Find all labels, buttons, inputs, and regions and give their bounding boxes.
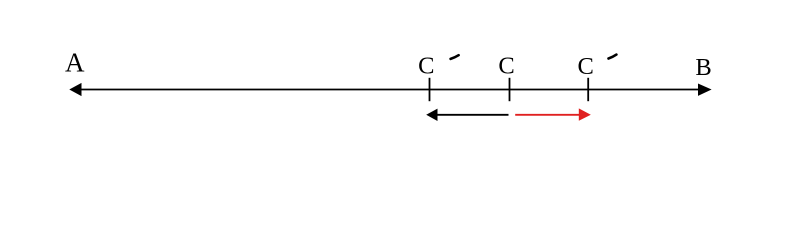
line AB [80, 89, 700, 91]
arrowhead at A (left end) [69, 83, 81, 96]
svg-text:C: C [578, 53, 594, 80]
tick C' (left) [429, 78, 431, 101]
red arrowhead (right) [579, 108, 591, 120]
svg-text:C: C [418, 53, 434, 80]
svg-text:A: A [65, 48, 85, 78]
black arrow (points left, from C toward C' left) [437, 114, 509, 116]
black arrowhead (left) [426, 109, 437, 121]
svg-text:C: C [498, 53, 514, 80]
svg-text:B: B [695, 54, 711, 81]
tick C (middle) [509, 78, 511, 101]
arrowhead at B (right end) [698, 84, 712, 96]
tick C' (right) [587, 78, 589, 101]
accent mark of right C' [609, 55, 617, 59]
accent mark of left C' [451, 55, 459, 59]
red arrow (points right, from C toward C' right) [515, 114, 579, 116]
